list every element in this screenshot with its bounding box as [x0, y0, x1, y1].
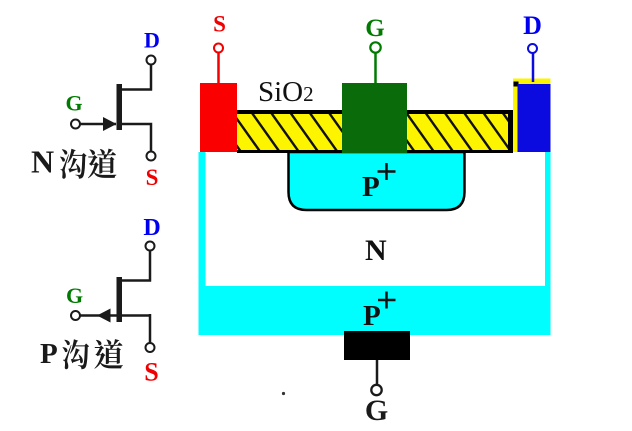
svg-text:G: G — [66, 283, 83, 308]
svg-text:P: P — [362, 171, 380, 203]
gate back electrode black block (structure) — [344, 331, 410, 360]
svg-text:P: P — [363, 300, 381, 332]
svg-text:S: S — [144, 358, 158, 387]
wire drain terminal lead (structure) — [532, 53, 535, 82]
wire source lead (P-channel symbol) — [149, 314, 152, 343]
p+ well under gate (structure) — [289, 152, 465, 210]
svg-text:P: P — [40, 338, 58, 370]
svg-text:G: G — [365, 15, 384, 42]
N region white (structure) — [206, 152, 546, 286]
transistor channel bar (N-channel symbol) — [117, 84, 123, 130]
black corner mark at drain electrode (structure) — [514, 82, 519, 87]
svg-text:D: D — [523, 11, 542, 40]
wire source lead (N-channel symbol) — [121, 123, 151, 152]
wire gate lead with arrow (P-channel symbol) — [81, 314, 151, 317]
svg-text:S: S — [213, 12, 226, 37]
svg-text:G: G — [365, 394, 388, 427]
svg-text:G: G — [65, 91, 82, 116]
SiO2 oxide layer black border (structure) — [237, 110, 513, 153]
svg-text:S: S — [146, 165, 159, 190]
yellow underlay of drain electrode (structure) — [513, 79, 551, 153]
terminal D circle (P-channel symbol) — [146, 242, 155, 251]
source electrode red block (structure) — [200, 83, 237, 152]
drain electrode blue block (structure) — [518, 84, 551, 152]
svg-text:N: N — [31, 144, 54, 180]
terminal S circle (structure) — [214, 44, 223, 53]
terminal S circle (N-channel symbol) — [147, 152, 156, 161]
substrate body cyan region (structure) — [199, 152, 551, 335]
gate electrode green block (structure) — [342, 83, 407, 153]
terminal G circle (N-channel symbol) — [71, 120, 80, 129]
wire drain lead (P-channel symbol) — [121, 251, 151, 281]
wire gate lead with arrow (N-channel symbol) — [81, 123, 117, 126]
terminal S circle (P-channel symbol) — [146, 343, 155, 352]
svg-text:D: D — [144, 28, 160, 53]
svg-text:N: N — [365, 234, 387, 267]
SiO2 oxide layer yellow fill (structure) — [237, 114, 508, 150]
svg-text:D: D — [143, 215, 160, 241]
wire source terminal lead (structure) — [217, 53, 220, 84]
wire bottom gate lead (structure) — [376, 360, 379, 385]
label P 沟道 (P-channel caption) — [40, 338, 123, 370]
terminal G circle (P-channel symbol) — [71, 311, 80, 320]
label N 沟道 (N-channel caption) — [31, 144, 116, 180]
terminal D circle (N-channel symbol) — [147, 56, 156, 65]
terminal D circle (structure) — [528, 44, 537, 53]
terminal G circle bottom (structure) — [371, 385, 381, 395]
stray dot artifact — [282, 392, 285, 395]
hatching in oxide layer — [194, 113, 530, 151]
transistor channel bar (P-channel symbol) — [117, 277, 123, 322]
terminal G circle (structure) — [370, 42, 380, 52]
wire drain lead (N-channel symbol) — [121, 65, 152, 90]
wire gate terminal lead (structure) — [374, 54, 377, 84]
